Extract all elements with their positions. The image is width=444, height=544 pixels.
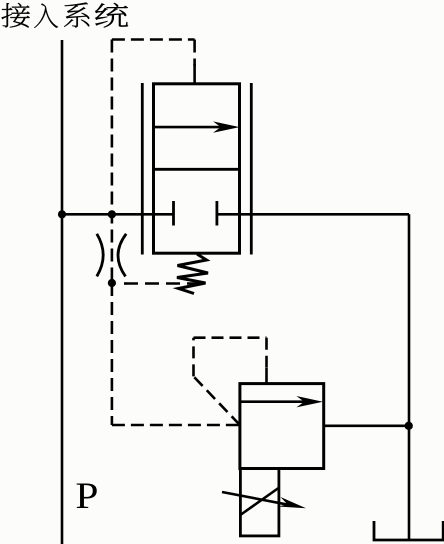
tank symbol (374, 521, 443, 540)
valve V1 blocked right port tick (215, 201, 218, 226)
pilot line: top dashed horizontal (112, 38, 195, 41)
junction dot on pilot line at orifice outlet (108, 279, 116, 287)
label "接入系统" (connect to system) (1, 2, 127, 28)
valve V1 return spring (177, 254, 208, 294)
wire: V2 outlet to right vertical wire (323, 424, 409, 427)
valve V1 blocked left port tick (172, 201, 175, 226)
adjustable throttle body box (240, 469, 279, 536)
junction dot pilot tap (108, 210, 116, 218)
valve V2 flow-path arrow (240, 400, 315, 403)
wire: solid stub into V2 top (265, 368, 268, 384)
adjustability arrow across throttle (222, 492, 288, 505)
valve V2 body box (240, 384, 324, 469)
junction dot on line P (58, 210, 66, 218)
valve V1 body box (154, 84, 240, 253)
valve V1 right side rail (250, 83, 253, 255)
pilot line: vertical dashed from line P tap (111, 40, 114, 284)
throttle diagonal element (241, 488, 279, 515)
svg-text:P: P (75, 476, 98, 517)
junction dot at outlet node (405, 422, 413, 430)
pilot line: dashed drop to V2 top (265, 338, 268, 370)
pilot line: dashed diagonal from V2 left port up (194, 376, 240, 425)
wire: V1 right port to right vertical wire (217, 213, 409, 216)
pilot line: dashed vertical down to valve V2 (111, 283, 114, 425)
pilot line: dashed horizontal over V2 (194, 336, 267, 339)
valve V1 flow-path arrow (open position) (154, 126, 233, 129)
pilot line: dashed drop to V1 top (193, 40, 196, 67)
wire: right vertical drain line (408, 214, 411, 540)
valve V1 position divider line (154, 168, 240, 171)
pilot line: dashed vertical riser (192, 338, 195, 377)
pilot line: dashed branch to V1 spring chamber (124, 282, 204, 285)
fixed orifice (throttle) on pilot line (97, 234, 103, 277)
wire: solid stub into V1 top (193, 64, 196, 84)
pilot line: dashed horizontal to V2 left port (112, 424, 240, 427)
main pressure line P (left vertical wire) (61, 40, 64, 544)
wire: port line from line P to valve V1 left port (62, 213, 174, 216)
valve V1 left side rail (141, 83, 144, 255)
